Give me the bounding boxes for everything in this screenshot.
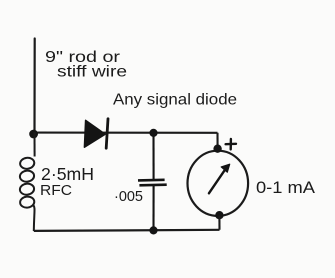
meter M1 (0-1 mA) [188,151,249,216]
wire (bottom horizontal) [34,230,220,231]
svg-text:Any signal diode: Any signal diode [113,92,237,109]
capacitor C1 .005 [138,133,167,230]
meter bottom terminal node [215,211,223,219]
node C (capacitor / bottom wire junction) [149,226,157,234]
wire (right vertical drop to meter) [216,133,218,150]
meter top terminal node [213,145,221,153]
wire (top horizontal) [35,132,218,134]
node B (diode / capacitor junction) [149,129,157,137]
svg-text:·005: ·005 [114,188,143,205]
plus polarity mark [226,139,236,149]
svg-text:stiff wire: stiff wire [57,64,127,81]
svg-text:RFC: RFC [40,182,72,199]
svg-text:0-1 mA: 0-1 mA [256,178,316,197]
node A (antenna / coil / diode junction) [29,130,38,139]
antenna wire [33,39,35,133]
meter needle [209,164,230,193]
inductor L1 2.5mH RFC [19,132,35,231]
svg-text:2·5mH: 2·5mH [41,164,94,184]
diode D1 (any signal diode) [84,119,108,148]
wire (meter bottom lead) [218,216,220,230]
